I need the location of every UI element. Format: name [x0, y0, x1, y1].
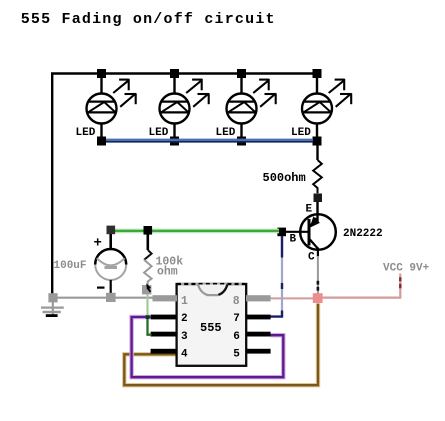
wire: dark overdraw on VCC riser [399, 277, 401, 281]
node: VCC junction (salmon square) [313, 293, 323, 303]
capacitor C1: top lead [109, 234, 112, 250]
ground: junction square on rail [48, 293, 57, 302]
IC U1: 555 body [177, 284, 247, 366]
node: R2 bottom junction (gray square with mark) [142, 285, 151, 294]
IC U1: notch black right edge [219, 285, 228, 295]
svg-text:2N2222: 2N2222 [343, 228, 383, 240]
wire: R1 to transistor emitter [316, 202, 318, 223]
capacitor C1: top junction node (dark square) [107, 226, 116, 235]
svg-text:1: 1 [181, 295, 188, 308]
node: top rail junction for D3 [237, 69, 246, 78]
LED D3 light arrows [253, 79, 276, 107]
svg-text:B: B [290, 234, 297, 246]
svg-text:C: C [308, 252, 315, 264]
LED D3 [227, 78, 257, 137]
svg-text:4: 4 [181, 348, 188, 360]
ground: bar 3 (black) [46, 314, 58, 317]
LED D2 [160, 78, 190, 137]
LED D4 light arrows [329, 79, 352, 107]
svg-text:LED: LED [291, 127, 311, 139]
node: black cursor tick on R2 bottom junction [146, 283, 151, 289]
node: top rail junction for D2 [170, 69, 179, 78]
wire: collector down to VCC rail (gray) [317, 256, 319, 294]
capacitor C1: top half black arc [95, 249, 126, 265]
svg-text:7: 7 [233, 313, 240, 325]
IC U1: pin 5 bar [246, 349, 271, 354]
svg-text:100uF: 100uF [54, 260, 87, 272]
resistor R2 100k: top lead [147, 234, 150, 250]
node: green/purple crossing tick [146, 315, 150, 319]
svg-text:500ohm: 500ohm [263, 171, 306, 185]
node: cathode rail junction for D2 [170, 137, 179, 146]
IC U1: top edge gray underlay [178, 283, 245, 285]
wire: base lead from node to Q1 [284, 231, 309, 233]
transistor Q1 2N2222 body [300, 214, 336, 250]
resistor R2 100k: zigzag upper (black) [144, 250, 152, 260]
capacitor C1: bottom lead [110, 280, 112, 294]
LED D1 light arrows [113, 79, 136, 107]
wire: top supply rail (black) [51, 72, 322, 74]
capacitor C1: minus sign [97, 287, 105, 289]
wire: LED4 cathode down to 500ohm [316, 145, 318, 160]
capacitor C1: curved plate [97, 258, 125, 265]
wire: pin3 riser dark green lower [148, 317, 152, 335]
svg-text:6: 6 [233, 331, 240, 343]
wire: pin2-pin6 loop (purple core) [132, 317, 284, 377]
svg-text:2: 2 [181, 313, 188, 325]
svg-text:+: + [94, 236, 102, 252]
IC U1: notch [198, 285, 227, 296]
svg-text:555 Fading on/off circuit: 555 Fading on/off circuit [21, 11, 276, 28]
capacitor C1: body circle (gray under-stroke) [95, 249, 126, 280]
wire: black overdraw dashes on collector drop [317, 281, 320, 285]
IC U1: top edge black dashes [177, 283, 246, 285]
node: cathode rail junction for D1 [97, 137, 106, 146]
svg-text:5: 5 [233, 348, 240, 360]
node: top rail junction for D1 [97, 69, 106, 78]
wire: left vertical from top rail to ground (black) [51, 73, 53, 295]
wire: VCC rail (pink) [323, 297, 401, 299]
wire: pin4 loop (brown core) [124, 304, 318, 386]
svg-text:3: 3 [181, 331, 188, 343]
IC U1: pin 1 bar (gray) [153, 295, 178, 301]
wire: pin7 riser navy top segment [281, 236, 283, 258]
wire: pin3 riser light green upper [146, 294, 148, 317]
wire: pin4 loop (brown halo) [124, 304, 318, 386]
wire: pin7 riser light section [281, 237, 283, 313]
capacitor C1: center bar plate [105, 266, 118, 269]
svg-text:VCC 9V+: VCC 9V+ [383, 263, 430, 275]
transistor Q1 collector stub [317, 248, 319, 257]
resistor R2 100k: zigzag lower (gray) [144, 260, 152, 286]
wire: green net cap+/100k-top/base (halo) [113, 229, 279, 234]
node: junction below R1 [314, 194, 323, 203]
wire: ground rail (gray) [57, 297, 153, 299]
LED D2 light arrows [186, 79, 209, 107]
wire: LED cathode rail (blue) [106, 139, 313, 142]
IC U1: pin 4 bar [151, 349, 177, 354]
wire: green net cap+/100k-top/base (core) [113, 230, 279, 232]
node: cap bottom on ground rail (gray square) [106, 293, 116, 302]
transistor Q1 base bar [308, 219, 311, 246]
transistor Q1 collector diagonal [309, 239, 318, 249]
wire: pin7 corner to bar (navy) [271, 311, 283, 317]
resistor R2 100k: top junction node [144, 226, 153, 235]
IC U1: pin 8 bar (gray) [246, 295, 271, 301]
svg-text:LED: LED [216, 127, 236, 139]
ground: bar 2 [43, 311, 61, 313]
transistor Q1 emitter diagonal [310, 218, 316, 227]
IC U1: pin 7 bar [246, 315, 271, 320]
node: base junction (black square) [277, 228, 286, 237]
svg-text:E: E [306, 204, 313, 216]
wire: pin7 riser navy mid dash [281, 283, 283, 289]
IC U1: pin 2 bar [151, 315, 177, 320]
transistor Q1 emitter arrowhead [310, 216, 320, 227]
node: cathode rail junction for D3 [237, 137, 246, 146]
wire: LED cathode rail dark edge [106, 141, 313, 143]
ground: stem [52, 302, 54, 316]
IC U1: pin 3 bar [151, 332, 177, 337]
wire: pin8 to VCC node (thin pink) [271, 297, 314, 299]
LED D4 [302, 78, 332, 137]
node: cathode rail junction for D4 [313, 137, 322, 146]
IC U1: pin 6 bar [246, 332, 271, 337]
wire: VCC rail riser (pink) [399, 274, 401, 299]
ground: bar 1 [41, 307, 64, 309]
node: top rail junction for D4 [313, 69, 322, 78]
svg-text:ohm: ohm [157, 266, 178, 279]
wire: pin2-pin6 loop (purple halo) [132, 317, 284, 377]
svg-text:8: 8 [233, 295, 240, 308]
svg-text:LED: LED [76, 127, 96, 139]
LED D1 [87, 78, 117, 137]
resistor R1 500ohm (zigzag) [313, 160, 322, 193]
svg-text:555: 555 [200, 321, 222, 335]
svg-text:LED: LED [149, 127, 169, 139]
